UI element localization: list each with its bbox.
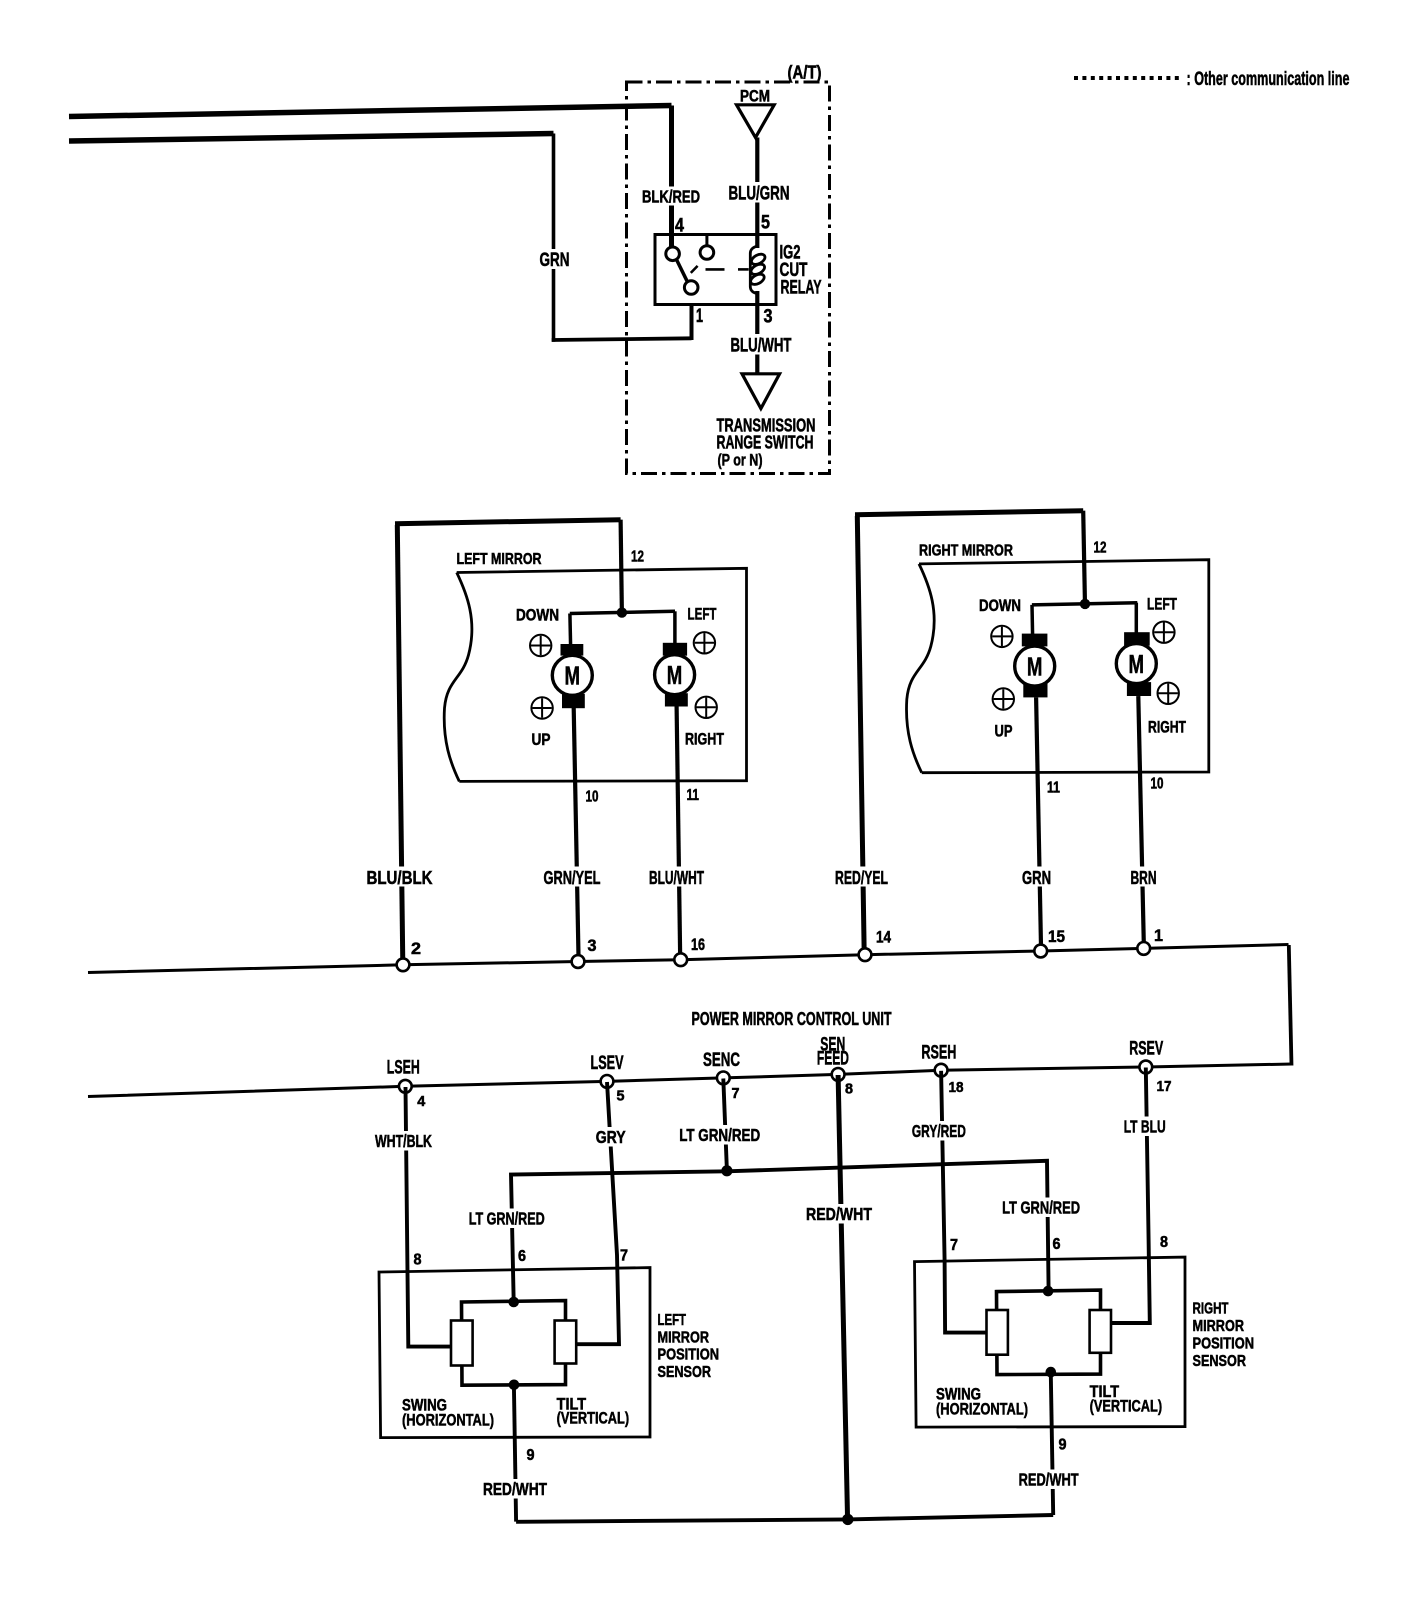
svg-text:RED/WHT: RED/WHT [483,1479,547,1499]
svg-text:WHT/BLK: WHT/BLK [375,1131,432,1151]
svg-text:SENSOR: SENSOR [1193,1353,1247,1370]
svg-text:GRN: GRN [1022,868,1051,888]
svg-text:3: 3 [764,307,773,328]
svg-text:: Other communication line: : Other communication line [1187,69,1350,90]
svg-text:LT BLU: LT BLU [1124,1117,1166,1137]
svg-text:DOWN: DOWN [516,606,559,625]
svg-text:BLU/GRN: BLU/GRN [729,184,790,205]
svg-text:7: 7 [732,1085,740,1102]
svg-text:M: M [667,660,683,690]
svg-text:GRY/RED: GRY/RED [912,1121,966,1141]
svg-text:LT GRN/RED: LT GRN/RED [1002,1198,1080,1218]
svg-text:4: 4 [417,1093,426,1110]
svg-text:18: 18 [949,1079,964,1096]
svg-text:11: 11 [687,787,700,804]
svg-text:LT GRN/RED: LT GRN/RED [679,1125,760,1145]
svg-text:1: 1 [696,306,703,327]
svg-text:BRN: BRN [1131,868,1157,888]
svg-text:5: 5 [617,1088,625,1105]
svg-text:UP: UP [995,722,1013,741]
svg-text:6: 6 [518,1248,526,1265]
svg-text:DOWN: DOWN [979,596,1021,615]
svg-text:2: 2 [411,940,421,958]
svg-text:FEED: FEED [817,1049,849,1070]
svg-text:MIRROR: MIRROR [1193,1318,1245,1335]
svg-text:LEFT MIRROR: LEFT MIRROR [457,551,542,568]
svg-text:RIGHT: RIGHT [1193,1301,1229,1318]
svg-text:BLK/RED: BLK/RED [642,187,700,207]
svg-text:LT GRN/RED: LT GRN/RED [469,1209,545,1229]
svg-text:RED/WHT: RED/WHT [1019,1470,1079,1490]
svg-text:10: 10 [586,789,599,806]
svg-text:(VERTICAL): (VERTICAL) [557,1409,630,1428]
svg-text:M: M [1027,651,1043,681]
svg-text:9: 9 [527,1447,535,1464]
svg-text:M: M [565,661,581,691]
svg-text:RIGHT: RIGHT [685,730,724,749]
svg-text:LEFT: LEFT [658,1312,687,1329]
svg-text:7: 7 [620,1248,628,1265]
svg-text:11: 11 [1047,780,1060,797]
svg-text:GRN/YEL: GRN/YEL [544,868,601,888]
svg-text:GRN: GRN [540,250,570,271]
svg-text:PCM: PCM [740,88,770,106]
svg-text:LSEV: LSEV [591,1053,624,1074]
svg-text:5: 5 [761,213,770,234]
svg-text:RELAY: RELAY [781,278,822,299]
svg-text:RED/YEL: RED/YEL [835,868,888,888]
svg-text:POWER MIRROR CONTROL UNIT: POWER MIRROR CONTROL UNIT [692,1009,892,1029]
svg-text:RSEV: RSEV [1129,1039,1163,1060]
svg-text:(VERTICAL): (VERTICAL) [1090,1397,1163,1416]
svg-text:RSEH: RSEH [921,1043,956,1064]
svg-text:14: 14 [876,929,892,947]
svg-text:8: 8 [1160,1234,1168,1251]
svg-text:6: 6 [1053,1236,1061,1253]
svg-text:RIGHT MIRROR: RIGHT MIRROR [919,543,1013,560]
svg-text:LEFT: LEFT [688,605,717,624]
svg-text:8: 8 [845,1081,853,1098]
svg-text:1: 1 [1154,927,1163,945]
svg-text:(A/T): (A/T) [788,63,822,83]
svg-text:8: 8 [414,1252,422,1269]
svg-text:LEFT: LEFT [1147,595,1177,614]
svg-text:7: 7 [950,1237,958,1254]
svg-text:BLU/WHT: BLU/WHT [731,336,792,357]
svg-text:RIGHT: RIGHT [1148,718,1186,737]
svg-text:12: 12 [1094,540,1107,557]
svg-text:(P or N): (P or N) [718,451,763,470]
svg-text:10: 10 [1151,776,1164,793]
svg-text:(HORIZONTAL): (HORIZONTAL) [402,1411,494,1430]
svg-text:BLU/BLK: BLU/BLK [367,868,433,888]
svg-text:3: 3 [588,937,597,955]
svg-text:RED/WHT: RED/WHT [806,1204,872,1224]
svg-text:MIRROR: MIRROR [658,1330,710,1347]
svg-text:POSITION: POSITION [1193,1336,1255,1353]
svg-text:12: 12 [631,549,644,566]
svg-text:(HORIZONTAL): (HORIZONTAL) [936,1400,1028,1419]
svg-text:15: 15 [1048,928,1065,946]
svg-text:SENC: SENC [703,1050,740,1071]
svg-text:UP: UP [532,730,551,749]
svg-text:LSEH: LSEH [387,1058,420,1079]
svg-text:M: M [1129,649,1145,679]
svg-text:9: 9 [1059,1437,1067,1454]
svg-text:BLU/WHT: BLU/WHT [649,868,704,888]
svg-text:RANGE SWITCH: RANGE SWITCH [717,433,814,453]
svg-text:16: 16 [691,936,705,954]
svg-text:SENSOR: SENSOR [658,1364,712,1381]
svg-text:POSITION: POSITION [658,1347,720,1364]
svg-text:4: 4 [675,216,684,237]
svg-text:GRY: GRY [596,1127,626,1147]
svg-text:17: 17 [1157,1078,1172,1095]
